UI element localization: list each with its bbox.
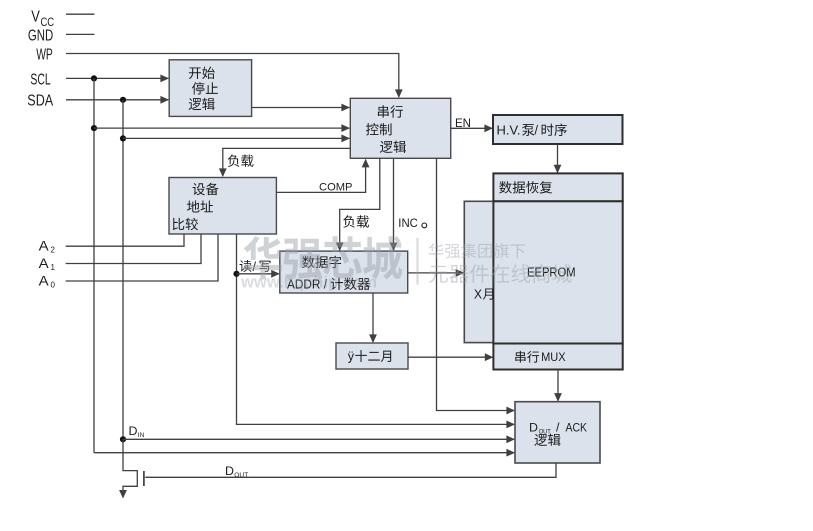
svg-text:/: / [535, 123, 539, 137]
transistor Q1 gate bar [143, 471, 145, 486]
wire data word counter to X decoder [408, 269, 465, 277]
wire SCL rail to Dout/ACK [94, 449, 515, 457]
svg-text:A: A [39, 238, 50, 254]
svg-text:INC: INC [398, 216, 418, 230]
block U3 HV pump/timing H.V.泵/时序 [493, 115, 623, 144]
svg-text:X: X [474, 287, 483, 301]
label load 负载 upper [228, 154, 254, 166]
wire VCC stub [66, 13, 95, 15]
wire SDA vertical rail [122, 100, 124, 440]
block U7 serial MUX 串行MUX [493, 344, 622, 370]
junction read/write node [233, 271, 239, 277]
pin label GND [28, 27, 53, 44]
block U1 start-stop logic 开始停止逻辑 [169, 60, 251, 117]
block U5 X decoder X月 [464, 201, 510, 342]
wire INC serial control to data word counter [390, 158, 398, 251]
wire D_IN to Dout/ACK [123, 435, 515, 443]
svg-text:2: 2 [51, 246, 56, 255]
wire serial control to Dout/ACK input [437, 158, 516, 414]
watermark divider bar [416, 238, 418, 285]
wire SCL to serial control logic [94, 124, 350, 132]
block U4 data recovery 数据恢复 [493, 173, 622, 201]
svg-text:SCL: SCL [30, 72, 51, 89]
svg-text:A: A [39, 255, 50, 271]
wire device address compare down to Dout/ACK input [237, 234, 516, 428]
watermark text 元器件在线商城 [429, 264, 572, 283]
wire A0 to device address compare [66, 234, 218, 281]
wire load serial control to data word counter [336, 158, 380, 251]
svg-text:MUX: MUX [541, 350, 566, 364]
svg-text:www.hqchip.com: www.hqchip.com [240, 273, 377, 292]
svg-text:D: D [529, 421, 538, 435]
label INC [398, 216, 426, 230]
pin label A2 [39, 238, 56, 255]
pin label SCL [30, 72, 51, 89]
svg-text:GND: GND [28, 27, 53, 44]
wire load from serial control to device address compare [219, 148, 350, 177]
transistor Q1 output driver channel [123, 439, 137, 490]
wire data word counter to Y decoder [369, 293, 377, 343]
svg-text:IN: IN [138, 432, 145, 439]
junction SDA [120, 97, 126, 103]
watermark text 华强集团旗下 [429, 243, 525, 258]
label X decoder text X月 [474, 287, 493, 301]
block U2 serial control logic 串行控制逻辑 [350, 98, 450, 158]
watermark logo 华强芯城 [244, 236, 402, 280]
svg-text:1: 1 [51, 263, 56, 272]
svg-text:D: D [129, 424, 138, 438]
svg-text:WP: WP [36, 47, 53, 64]
wire Y decoder to serial MUX [408, 353, 493, 361]
label COMP [319, 181, 353, 193]
pin label SDA [27, 92, 53, 109]
svg-text:SDA: SDA [27, 92, 53, 109]
junction SDA-serial [120, 135, 126, 141]
label read/write 读/写 [240, 260, 271, 274]
junction SCL [91, 75, 97, 81]
wire COMP device address compare to serial control [276, 159, 369, 193]
block U8 device address compare 设备地址比较 [169, 178, 276, 235]
wire SCL to start-stop logic [66, 75, 169, 83]
wire A2 to device address compare [66, 234, 184, 246]
pin label WP [36, 47, 53, 64]
wire WP to serial control logic top [66, 54, 403, 99]
wire read/write to data word counter [237, 270, 280, 278]
svg-text:D: D [225, 464, 234, 478]
junction D_IN node [120, 436, 126, 442]
label load 负载 lower [343, 215, 369, 227]
svg-text:V: V [31, 9, 40, 26]
wire ground arrow below transistor [119, 490, 127, 499]
wire EN serial control to HV pump [451, 124, 493, 132]
wire SDA to start-stop logic [66, 96, 169, 104]
label D_IN [129, 424, 145, 439]
pin label A1 [39, 255, 56, 272]
wire Dout/ACK output to output transistor gate [145, 463, 556, 477]
wire GND stub [66, 33, 95, 35]
watermark url www.hqchip.com [240, 273, 377, 292]
label D_OUT [225, 464, 248, 479]
label EN [455, 116, 471, 130]
wire start-stop logic to serial control logic [252, 104, 350, 112]
block U9 data word ADDR counter 数据字ADDR/计数器 [280, 251, 408, 293]
block U10 Y decoder ÿ十二月 [336, 343, 408, 369]
svg-text:COMP: COMP [319, 181, 353, 193]
wire serial MUX to Dout/ACK logic [554, 370, 562, 402]
svg-text:H.V.: H.V. [497, 123, 521, 137]
wire SDA to serial control logic [123, 135, 350, 143]
junction SCL-serial [91, 125, 97, 131]
svg-text:ACK: ACK [566, 421, 588, 435]
pin label A0 [39, 272, 56, 289]
block U11 Dout/ACK logic [515, 402, 600, 463]
svg-text:/: / [556, 421, 560, 435]
wire SCL vertical rail [93, 78, 95, 452]
wire A1 to device address compare [66, 234, 201, 264]
svg-text:0: 0 [51, 280, 56, 289]
pin label VCC [31, 9, 54, 29]
svg-text:ÿ: ÿ [348, 349, 355, 363]
block U6 EEPROM array [493, 201, 622, 343]
svg-text:A: A [39, 272, 50, 288]
wire HV pump to data recovery [554, 144, 562, 173]
